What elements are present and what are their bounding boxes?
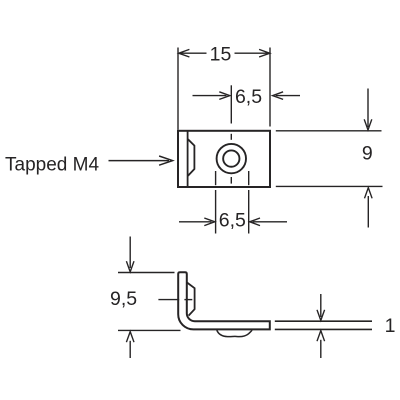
extension line right (15 / 6,5) <box>269 48 271 127</box>
dimension 6,5 bottom extension line left <box>215 171 217 185</box>
svg-text:Tapped M4: Tapped M4 <box>5 154 99 175</box>
dimension 9,5 down arrow <box>129 237 131 269</box>
centerline dash above hole <box>230 134 232 140</box>
tapped hole inner circle <box>223 150 239 166</box>
tapped hole outer circle <box>217 144 246 173</box>
dimension 1 down arrow <box>320 294 322 317</box>
svg-text:9,5: 9,5 <box>110 288 137 310</box>
svg-text:9: 9 <box>362 142 373 164</box>
dimension 15 left arrowhead <box>179 49 190 57</box>
dimension 15 right arrowhead <box>259 49 270 57</box>
dimension 9,5 bottom extension line <box>118 329 181 331</box>
svg-text:15: 15 <box>210 43 232 65</box>
dimension 9 bottom extension line <box>276 185 383 187</box>
leader line through upright <box>158 299 179 301</box>
dimension 1 up arrow <box>317 331 325 342</box>
dimension 9 up arrow <box>365 188 373 199</box>
dimension 6,5 top right arrowhead <box>273 92 284 100</box>
L-profile outline <box>178 272 270 329</box>
dimension 9 down arrow <box>367 89 369 128</box>
dimension 15 line <box>180 52 207 54</box>
dimension 6,5 bottom left arrow <box>179 221 212 223</box>
Tapped M4 leader arrow <box>109 160 170 162</box>
dimension 6,5 top: left arrow line <box>193 95 227 97</box>
dimension 9,5 top extension line <box>118 272 175 274</box>
dimension 6,5 bottom extension line right <box>248 171 250 185</box>
dimension 6,5 top left arrowhead <box>219 92 230 100</box>
svg-text:6,5: 6,5 <box>219 209 246 231</box>
dimension 6,5 bottom right arrow <box>250 218 260 226</box>
lance clip tab (plan) <box>188 139 194 176</box>
thread boss bump under strip <box>217 330 252 336</box>
extension line left (15) <box>177 48 179 130</box>
dimension 1 top extension line <box>275 320 372 322</box>
dimension 9 top extension line <box>276 130 382 132</box>
bent lip edge line <box>187 131 189 187</box>
dimension 9,5 up arrow <box>126 332 134 343</box>
dimension 6,5 top right arrow line <box>276 95 300 97</box>
lance clip tab (side view) <box>187 282 195 315</box>
dimension 1 bottom extension line <box>275 328 372 330</box>
centerline dash below hole <box>230 177 232 184</box>
svg-text:6,5: 6,5 <box>235 86 262 108</box>
centerline extension above hole <box>230 85 232 123</box>
plate outline <box>178 131 270 187</box>
svg-text:1: 1 <box>385 315 396 337</box>
